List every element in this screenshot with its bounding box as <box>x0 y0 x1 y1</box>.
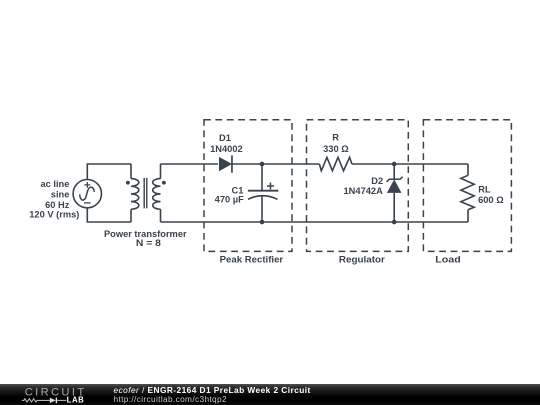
box Load <box>423 120 511 252</box>
svg-text:470 µF: 470 µF <box>215 194 244 204</box>
box Regulator <box>307 120 409 252</box>
logo diode <box>50 398 56 403</box>
logo resistor zigzag <box>22 399 50 402</box>
svg-text:600 Ω: 600 Ω <box>478 195 504 205</box>
footer bar <box>0 384 540 405</box>
junction node bottom-C1 <box>260 220 265 225</box>
wire bottom rail <box>161 221 469 223</box>
zener D2 leads <box>393 164 395 222</box>
credit line 2 <box>114 394 227 404</box>
wire secondary top lead <box>160 164 162 179</box>
wire source top to primary <box>87 164 131 180</box>
voltage source V1 <box>73 180 101 208</box>
capacitor C1 plus sign <box>267 183 274 190</box>
wire primary top lead <box>130 164 132 179</box>
svg-text:LAB: LAB <box>67 395 85 404</box>
junction node top-C1 <box>260 162 265 167</box>
phase dot primary <box>126 181 130 185</box>
wire top rail diode to R <box>232 163 319 165</box>
svg-text:sine: sine <box>51 189 70 199</box>
svg-text:1N4742A: 1N4742A <box>344 186 384 196</box>
capacitor C1 bottom lead <box>261 196 263 222</box>
capacitor C1 top lead <box>261 164 263 191</box>
zener D2 triangle <box>387 179 402 193</box>
box Peak Rectifier <box>204 120 292 252</box>
wire secondary bottom lead <box>160 209 162 222</box>
wire source bottom to primary <box>87 208 131 222</box>
diode D1 <box>219 157 232 171</box>
zener D2 bar <box>387 177 403 182</box>
transformer core <box>144 178 147 209</box>
resistor RL <box>461 175 474 210</box>
junction node top-D2 <box>392 162 397 167</box>
resistor R <box>319 157 352 171</box>
svg-text:N = 8: N = 8 <box>136 238 161 248</box>
wire top rail R to load corner <box>352 163 468 165</box>
svg-text:Peak Rectifier: Peak Rectifier <box>220 255 284 265</box>
svg-text:120 V (rms): 120 V (rms) <box>29 210 79 220</box>
transformer T1 primary coil <box>131 179 139 210</box>
svg-text:RL: RL <box>478 185 491 195</box>
svg-text:R: R <box>332 132 339 142</box>
wire primary bottom lead <box>130 209 132 222</box>
svg-text:Load: Load <box>435 255 461 265</box>
svg-text:Regulator: Regulator <box>339 255 385 265</box>
svg-text:D1: D1 <box>219 133 231 143</box>
capacitor C1 plates <box>248 190 279 192</box>
svg-text:1N4002: 1N4002 <box>210 144 243 154</box>
svg-text:D2: D2 <box>371 176 383 186</box>
CircuitLab logo <box>0 384 110 405</box>
logo wire <box>57 399 66 401</box>
transformer T1 secondary coil <box>153 179 161 210</box>
resistor RL top lead <box>467 164 469 175</box>
wire top rail secondary to diode <box>161 163 219 165</box>
svg-text:ac line: ac line <box>40 179 69 189</box>
credit line 1 <box>114 385 311 395</box>
svg-text:330 Ω: 330 Ω <box>323 144 349 154</box>
phase dot secondary <box>162 181 166 185</box>
junction node bottom-D2 <box>392 220 397 225</box>
resistor RL bottom lead <box>467 210 469 222</box>
